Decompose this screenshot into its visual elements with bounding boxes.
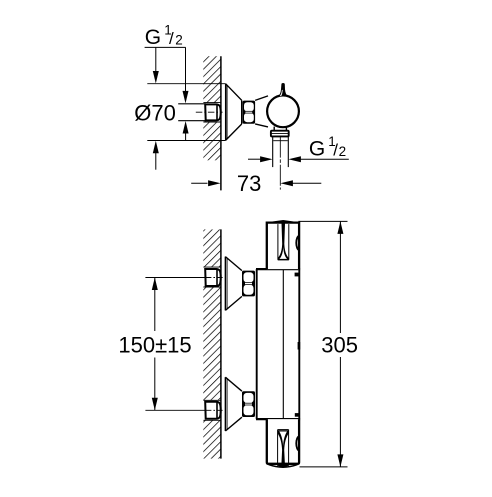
svg-text:2: 2 bbox=[339, 144, 347, 159]
bottom union nut bbox=[205, 402, 221, 419]
bottom handle grip highlight (goblet mirrored) bbox=[278, 430, 289, 464]
outlet neck bbox=[274, 127, 286, 131]
wall hole upper edge bbox=[203, 102, 221, 104]
dimension arrow up to thread bottom bbox=[183, 121, 189, 141]
outlet collar bbox=[271, 131, 289, 137]
screw plug top bbox=[295, 273, 299, 277]
wall hole edges bottom union bbox=[203, 400, 221, 420]
label G1/2 (top left) bbox=[145, 22, 183, 48]
wall hole edges top union bbox=[203, 267, 221, 287]
outlet pipe centerline bbox=[279, 137, 281, 190]
outlet pipe bbox=[273, 137, 289, 168]
top union: extension + centerline bbox=[145, 277, 205, 279]
wall face line (front view) bbox=[220, 229, 222, 458]
wall face line (side view) bbox=[220, 56, 222, 190]
svg-text:Ø70: Ø70 bbox=[134, 101, 176, 126]
dimension arrow down to escutcheon top bbox=[153, 47, 159, 83]
supply pipe stub top line bbox=[178, 103, 206, 105]
supply pipe stub bottom line bbox=[178, 120, 206, 122]
G1/2 right: arrow to pipe right edge + leader bbox=[288, 156, 348, 162]
bottom union threaded rings bbox=[242, 391, 255, 417]
svg-text:/: / bbox=[169, 29, 174, 48]
bottom union centerline bbox=[205, 409, 223, 411]
bottom handle grip groove bbox=[278, 430, 289, 466]
top handle grip groove bbox=[278, 224, 289, 260]
top handle grip highlight (goblet shape) bbox=[278, 223, 289, 260]
dimension 73: right arrow bbox=[280, 180, 321, 186]
dimension arrow up to escutcheon bottom bbox=[153, 141, 159, 170]
svg-text:G: G bbox=[309, 137, 325, 160]
handle lever stem bbox=[279, 83, 288, 96]
top union centerline bbox=[205, 277, 223, 279]
transition to valve body bbox=[255, 96, 268, 127]
svg-text:2: 2 bbox=[175, 32, 183, 47]
label G1/2 (right) bbox=[309, 134, 346, 160]
wall hole lower edge bbox=[203, 121, 221, 123]
wall hatch (side view) bbox=[203, 56, 221, 160]
bottom union: extension + centerline bbox=[145, 409, 205, 411]
escutcheon cone (side view) bbox=[226, 84, 242, 141]
body right edge detail tick bbox=[298, 342, 301, 350]
dimension 73: left arrow bbox=[191, 180, 220, 186]
G1/2 right: arrow to pipe left edge bbox=[248, 156, 273, 162]
svg-text:305: 305 bbox=[321, 332, 358, 357]
thermostat valve body (circle) bbox=[267, 95, 299, 127]
top union threaded rings bbox=[242, 271, 255, 297]
threaded rings (side view) bbox=[243, 101, 256, 124]
bottom handle bbox=[267, 419, 299, 467]
leader underline G1/2 top bbox=[145, 46, 186, 48]
svg-text:73: 73 bbox=[237, 171, 261, 196]
top union escutcheon cone bbox=[225, 257, 242, 311]
extension line escutcheon top (O70) bbox=[147, 83, 225, 85]
dimension 150±15 bbox=[152, 278, 158, 411]
dimension arrow down to thread top bbox=[183, 47, 189, 103]
svg-text:150±15: 150±15 bbox=[118, 332, 191, 357]
extension line escutcheon bottom (O70) bbox=[147, 140, 225, 142]
nut centerline (dash-dot) bbox=[196, 111, 223, 113]
dimension 305 bbox=[298, 221, 347, 467]
top handle bbox=[267, 221, 299, 270]
wall hatch (front view) bbox=[203, 229, 221, 458]
union nut (side view) bbox=[205, 104, 221, 120]
mixer body bbox=[256, 269, 300, 419]
svg-text:/: / bbox=[333, 140, 338, 159]
svg-text:G: G bbox=[145, 26, 161, 49]
top handle side button (ellipse arc) bbox=[296, 236, 299, 250]
screw plug bottom bbox=[295, 413, 299, 417]
bottom union escutcheon cone bbox=[225, 377, 242, 431]
bottom handle side button (ellipse arc) bbox=[296, 436, 299, 450]
top union nut bbox=[205, 269, 221, 286]
